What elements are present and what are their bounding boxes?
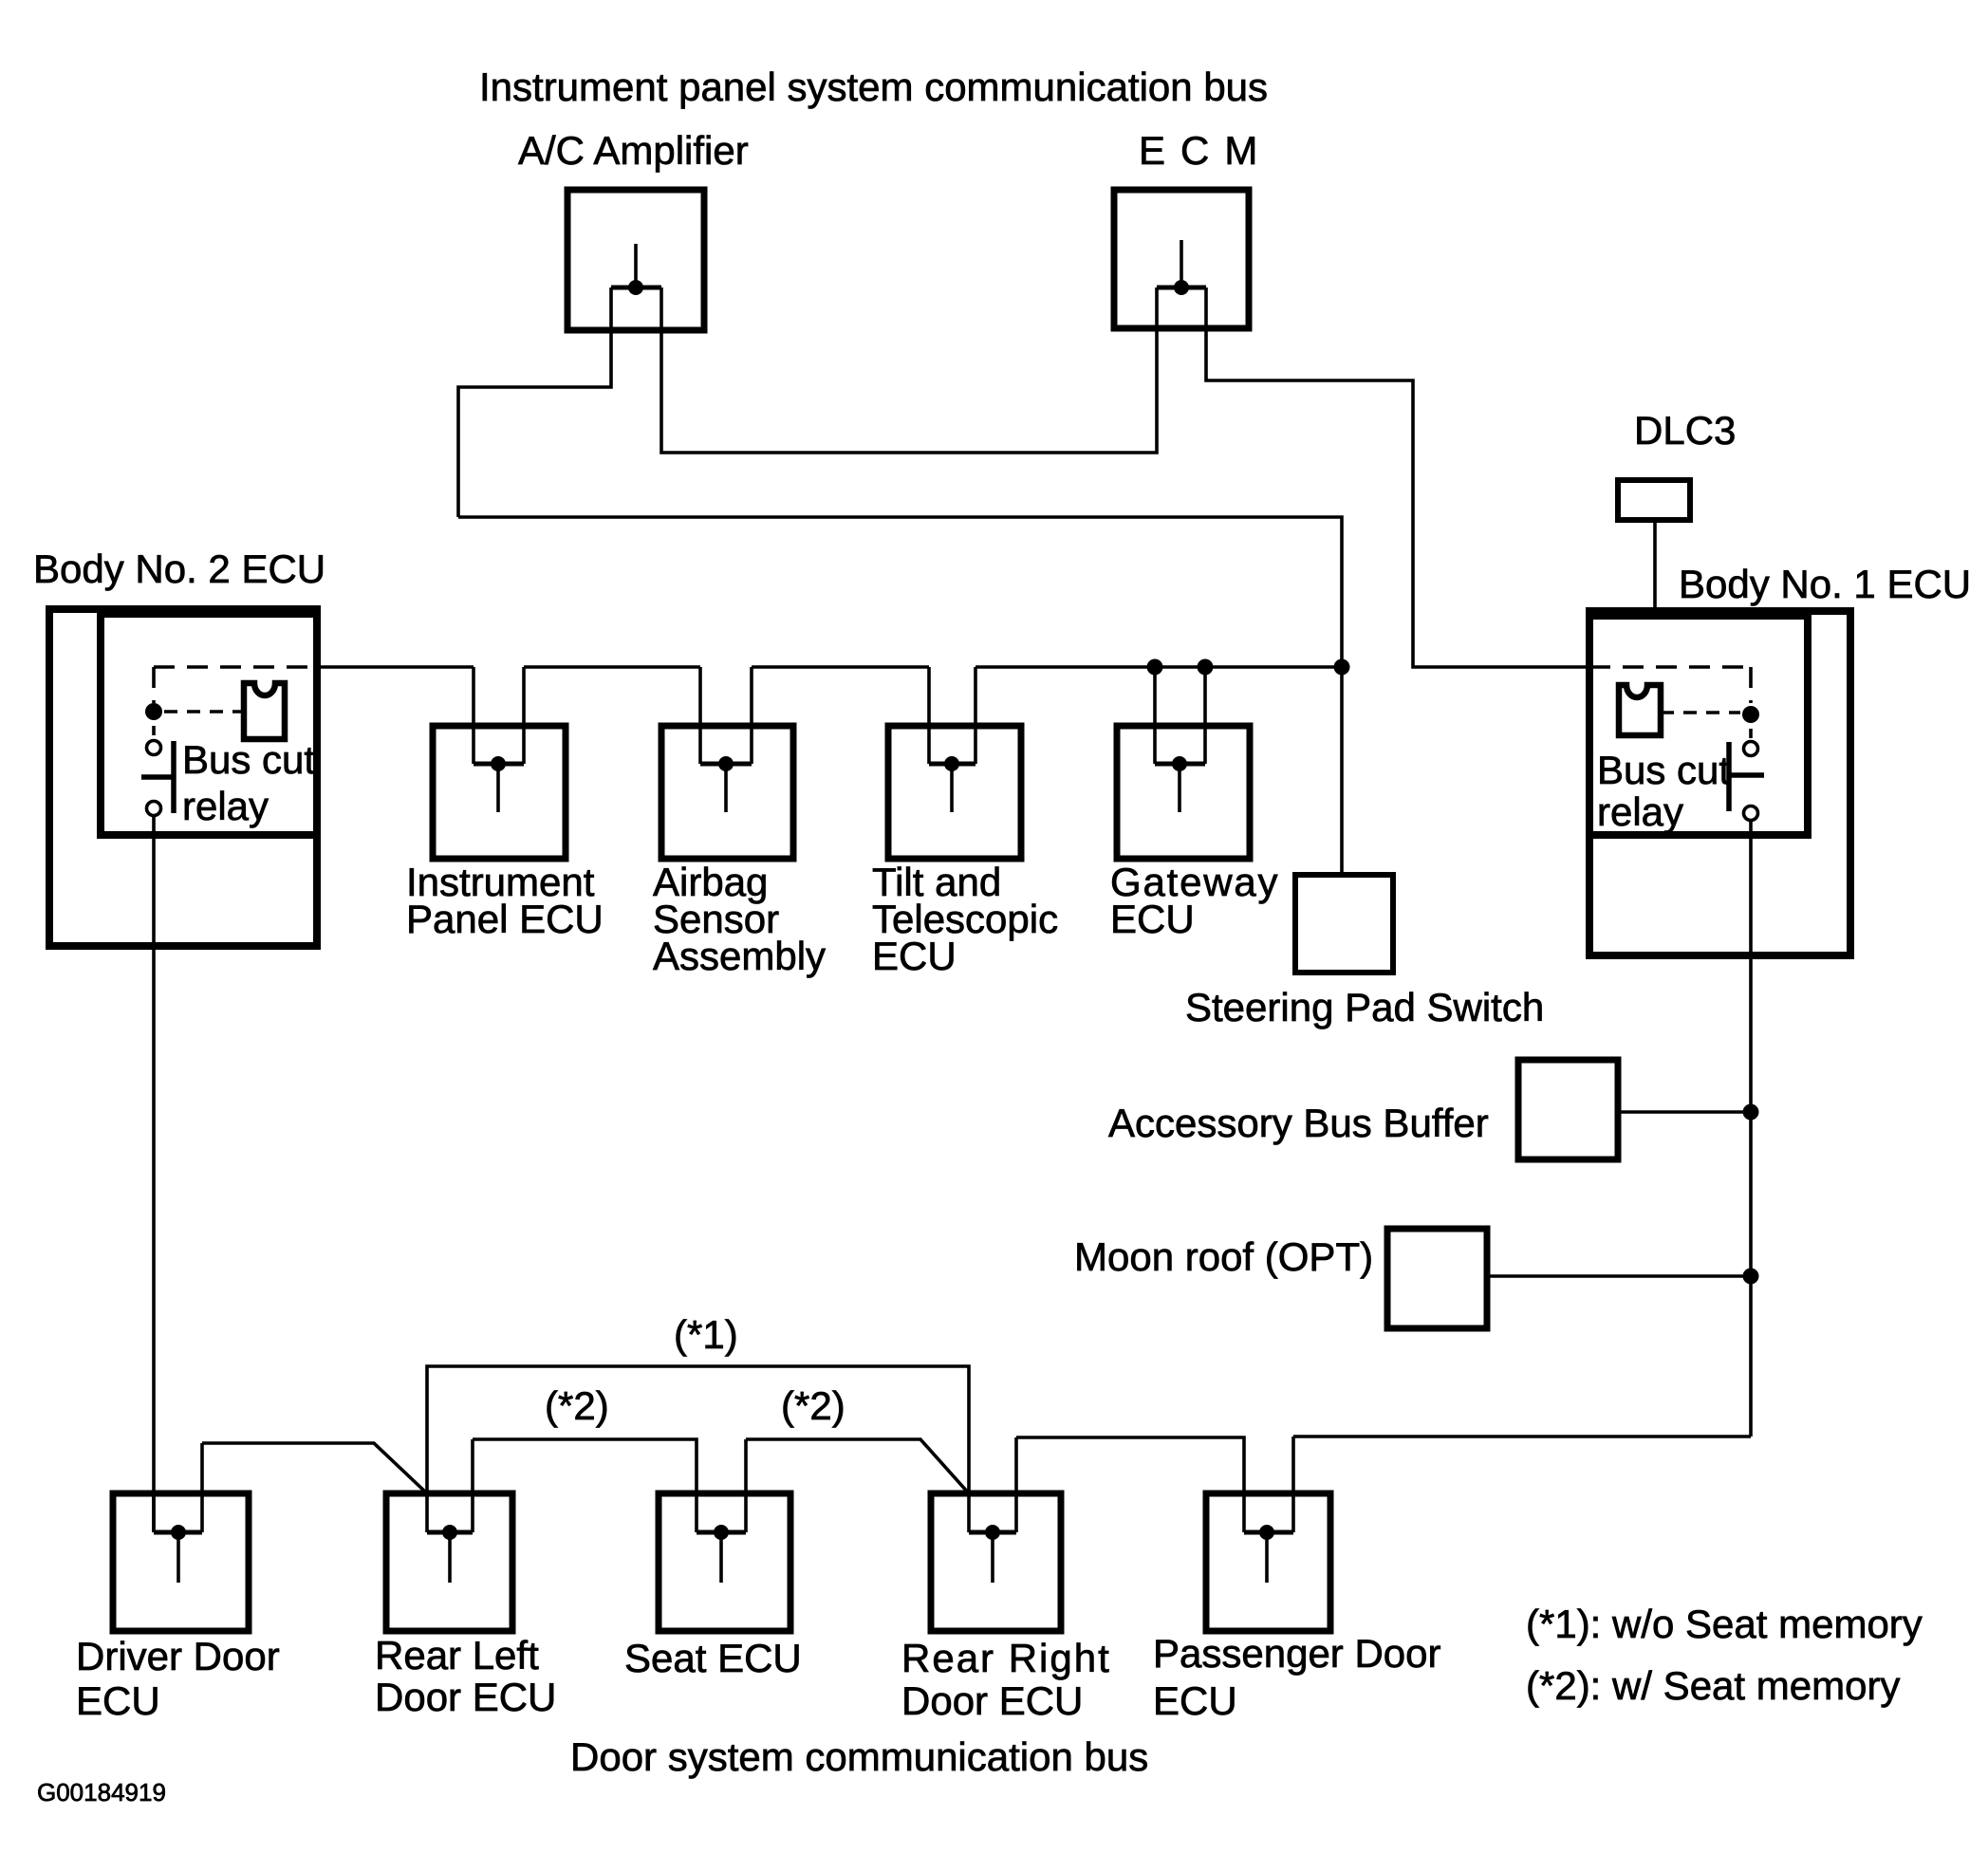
svg-text:ECU: ECU	[872, 934, 957, 978]
wire rear left to seat ecu (*2)	[473, 1439, 697, 1532]
box ECM	[1114, 190, 1249, 328]
wire Body No.2 relay output long left vertical	[152, 815, 156, 1532]
pin Seat ECU	[697, 1439, 746, 1583]
junction dot accessory tap	[1743, 1104, 1759, 1121]
junction dot gateway left tap	[1147, 659, 1163, 676]
wire ECM right leg to Body No.1 ECU	[1206, 287, 1589, 667]
svg-text:Steering Pad Switch: Steering Pad Switch	[1185, 985, 1544, 1029]
pin connector ECM	[1157, 240, 1206, 295]
relay left: dashed link to coil	[164, 710, 244, 714]
box Body No.1 bus cut relay inner	[1589, 616, 1808, 835]
wire accessory bus buffer link	[1618, 1110, 1751, 1114]
svg-text:(*2): (*2)	[781, 1383, 845, 1428]
wire rear right to passenger door	[1016, 1437, 1244, 1532]
relay right: dashed drop to contact	[1749, 667, 1753, 703]
wire A/C left leg down	[458, 287, 611, 517]
svg-text:Instrument panel system commun: Instrument panel system communication bu…	[479, 65, 1268, 109]
pin Rear Right Door ECU	[969, 1437, 1016, 1583]
relay right: movable contact bar	[1726, 742, 1732, 811]
wire passenger door to body no.1	[1293, 1435, 1751, 1438]
svg-text:Assembly: Assembly	[653, 934, 826, 978]
junction dot bus end	[1334, 659, 1350, 676]
relay left: contact lever	[141, 774, 174, 780]
svg-text:Door system communication bus: Door system communication bus	[570, 1734, 1148, 1779]
box Airbag Sensor Assembly	[661, 726, 793, 859]
relay right: dash between node and terminal	[1749, 729, 1753, 738]
svg-text:ECM: ECM	[1139, 128, 1273, 173]
box Rear Right Door ECU	[931, 1493, 1061, 1631]
svg-text:Body No. 1 ECU: Body No. 1 ECU	[1679, 562, 1971, 606]
box A/C Amplifier	[567, 190, 704, 330]
svg-text:(*1): w/o Seat memory: (*1): w/o Seat memory	[1526, 1602, 1923, 1646]
relay left: dash between node and terminal	[152, 726, 156, 735]
svg-text:(*2): w/ Seat memory: (*2): w/ Seat memory	[1526, 1663, 1900, 1708]
box Rear Left Door ECU	[386, 1493, 512, 1631]
junction dot gateway right tap	[1198, 659, 1214, 676]
svg-text:Panel ECU: Panel ECU	[406, 897, 604, 941]
junction dot moon roof tap	[1743, 1269, 1759, 1285]
relay left: upper contact terminal	[147, 741, 161, 755]
wire main instrument panel bus	[317, 665, 474, 669]
svg-text:G00184919: G00184919	[37, 1778, 166, 1807]
svg-text:Seat ECU: Seat ECU	[624, 1636, 802, 1680]
relay left: contact node dot	[145, 703, 162, 720]
relay left: dashed bus segment	[154, 665, 317, 669]
box Body No.2 ECU outer	[49, 609, 317, 946]
wire DLC3 stem	[1653, 520, 1657, 614]
relay left: lower contact terminal	[147, 802, 161, 816]
svg-text:Body No. 2 ECU: Body No. 2 ECU	[33, 547, 325, 591]
relay left: coil symbol	[244, 683, 285, 739]
box Tilt and Telescopic ECU	[888, 726, 1021, 859]
box Accessory Bus Buffer	[1518, 1060, 1618, 1159]
box Instrument Panel ECU	[433, 726, 566, 859]
relay right: contact lever	[1729, 772, 1764, 778]
pin Instrument Panel ECU	[474, 667, 524, 812]
svg-text:Bus cut: Bus cut	[182, 737, 315, 782]
svg-text:Rear Right: Rear Right	[901, 1636, 1111, 1680]
box Body No.1 ECU outer	[1589, 611, 1850, 955]
svg-text:A/C Amplifier: A/C Amplifier	[518, 128, 749, 173]
svg-text:relay: relay	[182, 784, 269, 828]
box Gateway ECU	[1117, 726, 1250, 859]
wire bus segment continuous past gateway	[975, 665, 1342, 669]
svg-text:Rear Left: Rear Left	[375, 1633, 539, 1677]
svg-text:Door ECU: Door ECU	[901, 1678, 1083, 1723]
svg-text:ECU: ECU	[1110, 897, 1195, 941]
wire seat ecu to rear right door (*2)	[746, 1439, 969, 1493]
relay right: contact node dot	[1742, 706, 1759, 723]
wire bus segment	[524, 665, 700, 669]
svg-text:(*2): (*2)	[545, 1383, 609, 1428]
box Driver Door ECU	[113, 1493, 249, 1631]
wire moon roof link	[1487, 1274, 1751, 1278]
pin Driver Door ECU	[154, 1443, 202, 1583]
svg-text:Driver Door: Driver Door	[76, 1634, 280, 1678]
pin Gateway ECU	[1155, 667, 1205, 812]
svg-text:Passenger Door: Passenger Door	[1153, 1631, 1441, 1676]
wire Body No.1 relay output down to door bus	[1749, 820, 1753, 1436]
svg-text:ECU: ECU	[1153, 1678, 1237, 1723]
relay left: movable contact bar	[171, 741, 177, 813]
svg-text:ECU: ECU	[76, 1678, 160, 1723]
box Moon roof	[1387, 1229, 1487, 1328]
svg-text:DLC3: DLC3	[1634, 408, 1736, 453]
svg-text:Door ECU: Door ECU	[375, 1675, 556, 1719]
wire long horizontal to bus junction	[458, 517, 1342, 667]
pin Passenger Door ECU	[1244, 1436, 1293, 1583]
wire A/C right leg to ECM left leg	[661, 287, 1157, 453]
svg-text:(*1): (*1)	[674, 1312, 738, 1357]
box Steering Pad Switch	[1295, 875, 1393, 973]
relay right: lower contact terminal	[1744, 806, 1758, 821]
relay right: coil symbol	[1619, 685, 1661, 735]
box Passenger Door ECU	[1206, 1493, 1330, 1631]
relay right: dashed link to coil	[1661, 711, 1740, 714]
svg-text:relay: relay	[1597, 789, 1683, 834]
pin Rear Left Door ECU	[427, 1439, 473, 1583]
pin Tilt and Telescopic ECU	[929, 667, 975, 812]
relay right: dashed bus segment	[1589, 665, 1751, 669]
box DLC3 connector	[1618, 480, 1690, 520]
wire down to steering pad switch	[1340, 667, 1344, 875]
svg-text:Moon roof (OPT): Moon roof (OPT)	[1074, 1234, 1373, 1279]
box Seat ECU	[659, 1493, 790, 1631]
relay right: upper contact terminal	[1744, 742, 1758, 756]
wire bus segment	[752, 665, 929, 669]
svg-text:Bus cut: Bus cut	[1597, 748, 1730, 792]
pin connector A/C Amplifier	[611, 244, 661, 295]
wire (*1) w/o seat memory bypass	[427, 1366, 969, 1493]
relay left: dashed drop to contact	[152, 667, 156, 703]
wire driver door to rear left door	[202, 1443, 427, 1493]
box Body No.2 bus cut relay inner	[101, 614, 317, 835]
svg-text:Accessory Bus Buffer: Accessory Bus Buffer	[1108, 1101, 1489, 1145]
pin Airbag Sensor Assembly	[700, 667, 752, 812]
